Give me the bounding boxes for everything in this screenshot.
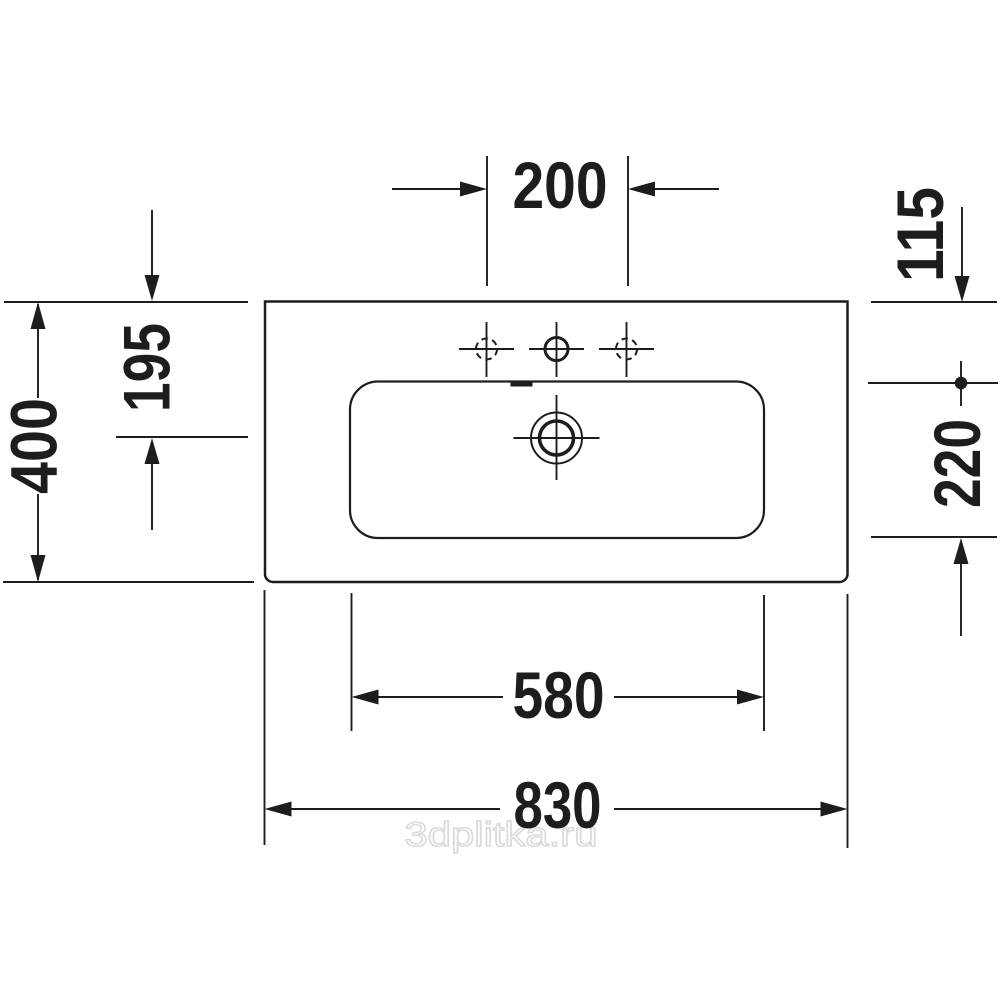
svg-text:580: 580 [513, 658, 605, 732]
svg-text:115: 115 [883, 187, 957, 282]
svg-text:195: 195 [110, 323, 184, 412]
svg-text:220: 220 [920, 419, 994, 508]
svg-text:830: 830 [514, 768, 602, 842]
svg-text:200: 200 [513, 148, 608, 222]
svg-text:400: 400 [0, 398, 71, 494]
